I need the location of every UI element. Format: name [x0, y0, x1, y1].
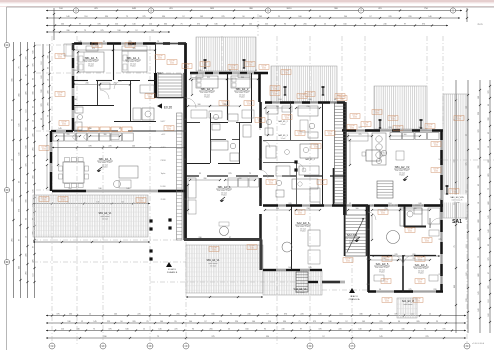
svg-text:Parket: Parket: [239, 96, 245, 99]
svg-text:280: 280: [204, 178, 207, 180]
svg-text:140 PP: 140 PP: [456, 117, 461, 119]
svg-text:5.2 m2: 5.2 m2: [281, 124, 286, 126]
pink top strip: [0, 0, 494, 2]
svg-text:140 PP: 140 PP: [417, 280, 422, 282]
svg-text:05 65: 05 65: [258, 121, 262, 123]
svg-text:140 PP: 140 PP: [451, 190, 456, 192]
svg-text:25 70: 25 70: [477, 24, 483, 26]
svg-text:140 PP: 140 PP: [57, 93, 62, 95]
svg-text:Parket: Parket: [102, 166, 108, 169]
svg-text:05 65: 05 65: [300, 97, 304, 99]
svg-text:140 PP: 140 PP: [345, 259, 350, 261]
svg-text:Parket: Parket: [221, 194, 227, 197]
svg-text:140 PP: 140 PP: [272, 92, 277, 94]
svg-text:140 PP: 140 PP: [57, 55, 62, 57]
svg-text:05 65: 05 65: [375, 113, 379, 115]
svg-text:225: 225: [359, 134, 362, 136]
svg-text:05 65: 05 65: [353, 117, 357, 119]
svg-text:140 PP: 140 PP: [307, 93, 312, 95]
svg-text:05 65: 05 65: [391, 119, 395, 121]
svg-text:D: D: [6, 261, 8, 264]
svg-text:=102.5: =102.5: [160, 147, 165, 149]
svg-text:300: 300: [404, 134, 407, 136]
svg-text:140 PP: 140 PP: [261, 66, 266, 68]
svg-text:140 PP: 140 PP: [147, 95, 152, 97]
svg-text:05 65: 05 65: [418, 282, 422, 284]
svg-text:140 PP: 140 PP: [339, 97, 344, 99]
svg-text:SB1_E1_4: SB1_E1_4: [127, 56, 140, 60]
svg-text:ZGRADI B: ZGRADI B: [167, 271, 178, 274]
svg-text:05 65: 05 65: [139, 201, 143, 203]
svg-text:290: 290: [413, 258, 416, 260]
svg-text:395: 395: [133, 48, 136, 50]
svg-text:140 PP: 140 PP: [319, 181, 324, 183]
svg-text:IA.A2 U: IA.A2 U: [350, 295, 358, 298]
svg-text:140 PP: 140 PP: [247, 63, 252, 65]
svg-text:05 65: 05 65: [269, 183, 273, 185]
svg-text:05 65: 05 65: [408, 231, 412, 233]
svg-text:SB1_E1_2: SB1_E1_2: [236, 87, 249, 91]
svg-text:375: 375: [92, 48, 95, 50]
svg-text:05 65: 05 65: [416, 301, 420, 303]
svg-text:9010: 9010: [287, 8, 293, 10]
svg-text:SB1_E0_V1: SB1_E0_V1: [206, 259, 220, 262]
svg-text:05 65: 05 65: [428, 127, 432, 129]
svg-text:140 PP: 140 PP: [138, 199, 143, 201]
svg-text:S.02 T: S.02 T: [161, 121, 166, 123]
svg-text:300: 300: [104, 134, 107, 136]
svg-text:05 65: 05 65: [167, 129, 171, 131]
svg-text:140 PP: 140 PP: [352, 115, 357, 117]
svg-text:05 65: 05 65: [314, 147, 318, 149]
svg-text:Parket: Parket: [349, 242, 355, 245]
svg-text:140 PP: 140 PP: [41, 147, 46, 149]
svg-text:300: 300: [241, 77, 244, 79]
svg-text:05 65: 05 65: [148, 97, 152, 99]
svg-text:140 PP: 140 PP: [313, 145, 318, 147]
svg-text:140 PP: 140 PP: [297, 132, 302, 134]
svg-text:05 65: 05 65: [158, 58, 162, 60]
svg-text:280: 280: [239, 178, 242, 180]
svg-text:05 65: 05 65: [58, 95, 62, 97]
svg-text:05 65: 05 65: [298, 213, 302, 215]
svg-text:250: 250: [383, 258, 386, 260]
svg-text:SB1_E1_3: SB1_E1_3: [201, 87, 214, 91]
svg-text:ZIVANJU A: ZIVANJU A: [349, 298, 360, 301]
svg-text:140 PP: 140 PP: [184, 65, 189, 67]
svg-text:E0.20: E0.20: [164, 106, 173, 110]
svg-text:SA1: SA1: [452, 219, 462, 225]
svg-text:SA2_E1_4: SA2_E1_4: [305, 158, 315, 161]
svg-text:140 PP: 140 PP: [433, 169, 438, 171]
svg-text:05 65: 05 65: [95, 46, 99, 48]
svg-text:natk terasa: natk terasa: [404, 303, 413, 306]
svg-text:140 PP: 140 PP: [249, 246, 254, 248]
svg-text:140 PP: 140 PP: [41, 198, 46, 200]
svg-text:05 65: 05 65: [212, 250, 216, 252]
svg-text:140 PP: 140 PP: [395, 127, 400, 129]
svg-text:7/8 9/8: 7/8 9/8: [160, 160, 165, 162]
svg-text:SA1_E0_4: SA1_E0_4: [415, 263, 428, 267]
svg-text:140 PP: 140 PP: [374, 111, 379, 113]
svg-text:05 65: 05 65: [248, 65, 252, 67]
svg-text:11 stan: 11 stan: [102, 218, 108, 221]
svg-text:05 65: 05 65: [457, 119, 461, 121]
svg-text:230: 230: [307, 208, 310, 210]
svg-text:Parket: Parket: [130, 65, 136, 68]
svg-text:260: 260: [114, 83, 117, 85]
svg-text:05 65: 05 65: [273, 94, 277, 96]
svg-text:SA2_E1_3: SA2_E1_3: [278, 134, 288, 137]
svg-text:SA2: SA2: [157, 71, 163, 75]
svg-text:05 65: 05 65: [128, 46, 132, 48]
svg-text:05 65: 05 65: [350, 128, 354, 130]
svg-text:05 65: 05 65: [396, 129, 400, 131]
svg-text:160: 160: [356, 208, 359, 210]
svg-text:280: 280: [414, 208, 417, 210]
svg-text:05 65: 05 65: [185, 67, 189, 69]
svg-text:140 PP: 140 PP: [230, 66, 235, 68]
svg-text:140 PP: 140 PP: [169, 61, 174, 63]
svg-text:05 65: 05 65: [308, 95, 312, 97]
svg-text:140 PP: 140 PP: [427, 125, 432, 127]
svg-text:140 PP: 140 PP: [424, 239, 429, 241]
svg-text:140 PP: 140 PP: [127, 44, 132, 46]
svg-text:10 200: 10 200: [160, 186, 165, 188]
svg-text:SB1_E1_6: SB1_E1_6: [99, 157, 112, 161]
svg-text:140 PP: 140 PP: [299, 95, 304, 97]
svg-text:05 65: 05 65: [42, 200, 46, 202]
svg-text:05 65: 05 65: [250, 248, 254, 250]
svg-text:05 65: 05 65: [434, 145, 438, 147]
svg-text:05 65: 05 65: [58, 57, 62, 59]
svg-text:05 65: 05 65: [328, 134, 332, 136]
svg-text:29 3/8: 29 3/8: [161, 199, 166, 201]
svg-text:05 65: 05 65: [385, 301, 389, 303]
svg-text:140 PP: 140 PP: [166, 127, 171, 129]
svg-text:05 65: 05 65: [340, 99, 344, 101]
svg-text:05 65: 05 65: [320, 183, 324, 185]
svg-text:05 65: 05 65: [434, 171, 438, 173]
svg-text:u2 464 0 460 A: u2 464 0 460 A: [472, 342, 485, 345]
svg-text:140 PP: 140 PP: [202, 63, 207, 65]
svg-text:140 PP: 140 PP: [284, 116, 289, 118]
svg-text:140 PP: 140 PP: [349, 126, 354, 128]
svg-text:180: 180: [198, 104, 201, 106]
svg-text:140 PP: 140 PP: [327, 132, 332, 134]
svg-text:SA1_E0_5: SA1_E0_5: [376, 262, 389, 266]
svg-text:250: 250: [385, 208, 388, 210]
svg-text:140 PP: 140 PP: [268, 181, 273, 183]
svg-text:140 PP: 140 PP: [157, 56, 162, 58]
svg-text:11 stan: 11 stan: [210, 265, 216, 268]
svg-text:140 PP: 140 PP: [60, 198, 65, 200]
svg-text:05 65: 05 65: [273, 89, 277, 91]
svg-text:05 65: 05 65: [203, 65, 207, 67]
svg-text:C: C: [6, 189, 8, 192]
svg-text:Parket: Parket: [399, 174, 405, 177]
svg-text:05 65: 05 65: [231, 68, 235, 70]
svg-text:05 65: 05 65: [62, 124, 66, 126]
svg-text:05 65: 05 65: [285, 118, 289, 120]
svg-text:05 65: 05 65: [42, 149, 46, 151]
svg-text:140 PP: 140 PP: [417, 258, 422, 260]
svg-text:140 PP: 140 PP: [390, 117, 395, 119]
svg-text:140 PP: 140 PP: [363, 123, 368, 125]
svg-text:230: 230: [307, 106, 310, 108]
svg-text:Topl.iz: Topl.iz: [161, 173, 166, 175]
svg-text:140 PP: 140 PP: [407, 229, 412, 231]
svg-text:SA2_E1_2: SA2_E1_2: [278, 120, 288, 123]
svg-text:SB1_E1_5: SB1_E1_5: [85, 56, 98, 60]
svg-text:140 PP: 140 PP: [383, 280, 388, 282]
svg-text:355: 355: [207, 77, 210, 79]
svg-text:260: 260: [224, 104, 227, 106]
svg-text:220: 220: [67, 134, 70, 136]
svg-text:3.1 m2: 3.1 m2: [281, 138, 286, 140]
svg-text:Parket: Parket: [418, 272, 424, 275]
svg-text:140 PP: 140 PP: [94, 44, 99, 46]
svg-text:230: 230: [276, 208, 279, 210]
svg-text:05 65: 05 65: [346, 261, 350, 263]
svg-text:05 65: 05 65: [452, 192, 456, 194]
svg-text:140 PP: 140 PP: [433, 143, 438, 145]
svg-text:05 65: 05 65: [364, 125, 368, 127]
svg-text:140 PP: 140 PP: [384, 299, 389, 301]
svg-text:240: 240: [86, 83, 89, 85]
svg-text:05 65: 05 65: [381, 213, 385, 215]
svg-text:140 PP: 140 PP: [283, 71, 288, 73]
svg-text:SA2_E0_V1: SA2_E0_V1: [293, 288, 307, 291]
svg-text:+0.12: +0.12: [161, 134, 165, 136]
svg-text:SA1_E0_VI: SA1_E0_VI: [402, 300, 415, 303]
svg-text:Parket: Parket: [300, 230, 306, 233]
svg-text:140 PP: 140 PP: [246, 102, 251, 104]
svg-text:SA2_E0_6: SA2_E0_6: [297, 221, 310, 225]
svg-text:05 65: 05 65: [425, 241, 429, 243]
svg-text:05 65: 05 65: [384, 282, 388, 284]
svg-text:140 PP: 140 PP: [415, 299, 420, 301]
svg-text:05 65: 05 65: [262, 68, 266, 70]
svg-text:140 PP: 140 PP: [61, 122, 66, 124]
svg-text:140 PP: 140 PP: [380, 211, 385, 213]
svg-text:140 PP: 140 PP: [257, 119, 262, 121]
svg-text:SA2 A02: SA2 A02: [347, 233, 358, 237]
svg-text:SB1_E0_6: SB1_E0_6: [218, 185, 231, 189]
svg-text:225: 225: [276, 106, 279, 108]
svg-text:140 PP: 140 PP: [272, 87, 277, 89]
svg-text:05 65: 05 65: [284, 73, 288, 75]
svg-text:Parket: Parket: [204, 96, 210, 99]
svg-text:140 PP: 140 PP: [211, 248, 216, 250]
svg-text:S1.A2 U: S1.A2 U: [168, 268, 177, 271]
svg-text:Parket: Parket: [379, 271, 385, 274]
faint pink line: [0, 5, 494, 8]
svg-text:Parket: Parket: [88, 65, 94, 68]
svg-text:05 65: 05 65: [61, 200, 65, 202]
svg-text:05 65: 05 65: [170, 63, 174, 65]
svg-text:140 PP: 140 PP: [297, 211, 302, 213]
svg-text:05 65: 05 65: [298, 134, 302, 136]
svg-text:SB1_E0_V1: SB1_E0_V1: [98, 212, 112, 215]
svg-text:natk terasa: natk terasa: [296, 291, 305, 294]
svg-text:11 stan: 11 stan: [454, 201, 459, 204]
svg-text:05 65: 05 65: [247, 104, 251, 106]
svg-text:SB1_E2_V2: SB1_E2_V2: [395, 165, 410, 169]
